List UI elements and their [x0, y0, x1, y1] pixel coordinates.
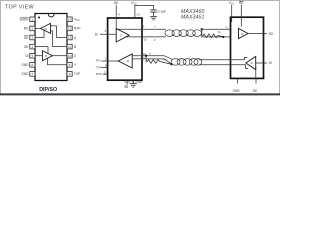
- U3 driver triangle: [246, 56, 256, 69]
- termination resistor RT top: [202, 29, 224, 37]
- capacitor C1 0.1uF: [150, 10, 156, 12]
- svg-text:DI: DI: [269, 61, 272, 65]
- svg-text:RE: RE: [239, 1, 244, 5]
- wire VCC branch to cap: [135, 5, 154, 9]
- wire bottom pair lower (B): [132, 59, 171, 64]
- wire DE down: [115, 5, 117, 29]
- svg-text:9: 9: [69, 63, 71, 67]
- svg-text:Z: Z: [154, 38, 156, 42]
- pin box 4: [30, 44, 35, 49]
- twisted pair top: [165, 30, 202, 37]
- junction dot bottom pair right: [170, 63, 172, 65]
- svg-text:DI: DI: [25, 54, 28, 58]
- pin box 7: [30, 72, 35, 77]
- wire RE right: [240, 5, 242, 27]
- wire RXP stub: [103, 73, 109, 75]
- U2 receiver triangle: [118, 54, 132, 68]
- svg-text:13: 13: [104, 70, 108, 74]
- svg-text:DE: DE: [24, 45, 28, 49]
- wire receiver input B to pin 11: [51, 31, 68, 47]
- wire VCC right: [231, 5, 233, 22]
- pin box 1: [30, 17, 72, 76]
- svg-text:A: A: [149, 52, 151, 56]
- svg-text:Z: Z: [74, 54, 76, 58]
- wire top pair upper (Y): [117, 28, 167, 30]
- wire pin4 DE enable: [35, 47, 48, 54]
- SHDN overline: [20, 16, 29, 18]
- IC U3 box (right transceiver): [231, 17, 264, 78]
- svg-text:13: 13: [68, 27, 72, 31]
- DIP receiver triangle: [41, 23, 51, 33]
- wire pin2 to receiver: [35, 27, 41, 29]
- pin box 9: [67, 63, 72, 68]
- pin box 10: [67, 53, 72, 58]
- junction dot bottom pair left: [145, 55, 147, 57]
- pin box 3: [30, 35, 35, 40]
- U2 driver triangle: [116, 29, 129, 43]
- svg-text:GND: GND: [21, 63, 29, 67]
- svg-text:DI: DI: [95, 32, 98, 36]
- junction dot top pair right: [222, 36, 224, 38]
- svg-text:RO: RO: [269, 32, 274, 36]
- svg-text:RXP: RXP: [96, 72, 102, 76]
- svg-text:RE: RE: [124, 85, 128, 89]
- pin 1 marker dot: [38, 17, 40, 19]
- svg-text:6: 6: [32, 63, 34, 67]
- svg-text:4: 4: [32, 45, 34, 49]
- pin box 5: [30, 53, 35, 58]
- pin box 13: [67, 26, 72, 31]
- DIP package body U1: [35, 14, 67, 81]
- pin box 11: [67, 44, 72, 49]
- pin box 2: [30, 26, 35, 31]
- wire RO output: [102, 60, 119, 62]
- svg-text:TXP: TXP: [74, 72, 80, 76]
- svg-text:3: 3: [32, 36, 34, 40]
- wire VCC down: [134, 5, 136, 18]
- U2 bottom stub GND pins 6,7: [132, 80, 134, 83]
- termination resistor RT bottom: [146, 56, 171, 64]
- pin box 12: [67, 35, 72, 40]
- svg-text:2: 2: [32, 27, 34, 31]
- wire driver base to DE stub: [255, 66, 257, 78]
- svg-text:GND: GND: [21, 72, 29, 76]
- wire bottom pair upper (A): [132, 56, 172, 60]
- svg-text:CC: CC: [76, 19, 80, 22]
- svg-text:MAX3461: MAX3461: [181, 14, 204, 20]
- svg-text:7: 7: [32, 72, 34, 76]
- svg-text:GND: GND: [233, 89, 241, 93]
- junction dot top pair left: [201, 28, 203, 30]
- svg-text:RO: RO: [24, 27, 29, 31]
- svg-text:TXP: TXP: [96, 65, 102, 69]
- wire DI input right: [256, 62, 267, 64]
- pin name labels left: [19, 18, 29, 77]
- svg-text:A: A: [226, 26, 228, 30]
- pin box 6: [30, 63, 35, 68]
- wire driver out Z to pin10: [53, 55, 68, 57]
- IC U2 box (left transceiver): [108, 18, 142, 80]
- ground under capacitor: [150, 17, 157, 20]
- wire DI input: [100, 33, 117, 35]
- bottom rule: [0, 93, 280, 95]
- wire driver out Y to pin9: [48, 58, 68, 65]
- frame border: [1, 1, 280, 96]
- svg-text:DE: DE: [114, 1, 120, 5]
- svg-text:14: 14: [68, 18, 72, 22]
- svg-text:12: 12: [68, 36, 72, 40]
- U3 bottom stub DE: [255, 78, 257, 83]
- ground symbol under pins 6,7: [130, 84, 137, 87]
- svg-text:SHDN: SHDN: [19, 18, 29, 22]
- svg-text:RXP: RXP: [74, 27, 81, 31]
- pin numbers left: [32, 18, 72, 77]
- svg-text:11: 11: [68, 45, 71, 49]
- svg-text:10: 10: [144, 37, 148, 41]
- svg-text:RO: RO: [96, 59, 101, 63]
- svg-text:0.1µF: 0.1µF: [158, 10, 166, 14]
- svg-text:Y: Y: [154, 25, 156, 29]
- pin box 8: [67, 72, 72, 77]
- svg-text:14: 14: [136, 12, 140, 16]
- svg-text:B: B: [74, 45, 76, 49]
- wire pin3 RE enable: [35, 30, 44, 37]
- svg-text:DE: DE: [253, 89, 257, 93]
- wire driver upper output jog: [231, 57, 248, 59]
- wire pin5 DI to driver: [35, 55, 43, 57]
- U3 receiver triangle: [239, 28, 249, 38]
- wire receiver input A to pin 12: [51, 26, 68, 38]
- svg-text:5: 5: [32, 54, 34, 58]
- wire top pair lower (Z): [125, 36, 166, 38]
- svg-text:10: 10: [68, 54, 72, 58]
- twisted pair bottom: [171, 59, 202, 66]
- DIP notch: [48, 14, 54, 17]
- svg-text:RE: RE: [24, 36, 28, 40]
- U2 bottom stub RE pin3: [126, 80, 128, 84]
- pin name labels right: [74, 18, 81, 77]
- wire receiver output RO: [248, 33, 267, 35]
- svg-text:TOP VIEW: TOP VIEW: [5, 5, 35, 11]
- svg-text:DIP/SO: DIP/SO: [39, 87, 57, 93]
- svg-text:1: 1: [32, 18, 34, 22]
- svg-text:8: 8: [69, 72, 71, 76]
- DIP driver triangle: [43, 51, 53, 61]
- wire TXP stub: [102, 67, 109, 69]
- svg-text:VCC: VCC: [131, 1, 137, 6]
- svg-text:11: 11: [143, 56, 146, 60]
- RE overline: [24, 34, 28, 36]
- wire driver lower output jog: [231, 65, 249, 69]
- U3 bottom stub GND: [237, 78, 239, 83]
- pin box 14: [67, 17, 72, 22]
